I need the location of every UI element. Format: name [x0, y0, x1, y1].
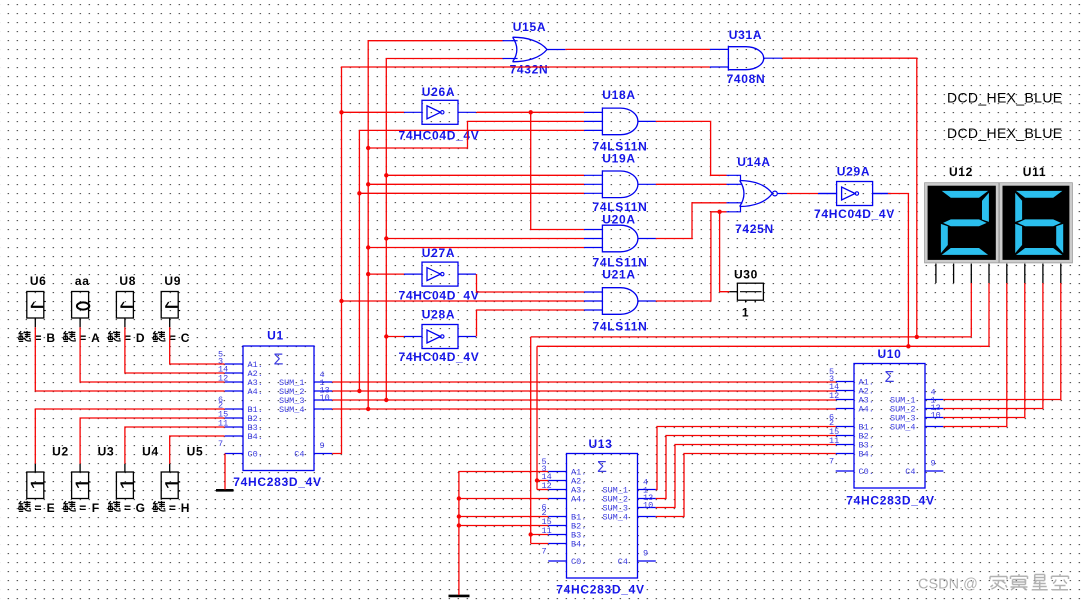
- svg-text:B: B: [46, 331, 55, 345]
- svg-text:U2: U2: [52, 444, 69, 458]
- svg-text:U3: U3: [98, 444, 115, 458]
- svg-text:9: 9: [643, 549, 648, 559]
- svg-text:A: A: [91, 331, 100, 345]
- svg-text:DCD_HEX_BLUE: DCD_HEX_BLUE: [947, 89, 1062, 105]
- svg-text:C4: C4: [294, 450, 304, 460]
- svg-text:A4.: A4.: [571, 495, 586, 505]
- svg-text:74HC283D_4V: 74HC283D_4V: [556, 583, 644, 597]
- svg-text:U12: U12: [949, 165, 973, 179]
- svg-text:U18A: U18A: [602, 88, 635, 102]
- svg-text:7: 7: [829, 457, 834, 467]
- svg-text:D: D: [136, 331, 145, 345]
- svg-text:E: E: [47, 501, 56, 515]
- svg-text:10: 10: [320, 393, 330, 403]
- svg-text:U14A: U14A: [737, 155, 770, 169]
- svg-text:C4: C4: [905, 467, 915, 477]
- svg-text:SUM_4: SUM_4: [602, 513, 628, 523]
- svg-text:B4.: B4.: [571, 540, 586, 550]
- svg-text:A4.: A4.: [248, 387, 263, 397]
- svg-text:C0.: C0.: [859, 467, 874, 477]
- svg-text:7432N: 7432N: [510, 63, 549, 77]
- svg-text:C4: C4: [618, 557, 628, 567]
- svg-text:A4.: A4.: [859, 405, 874, 415]
- svg-text:SUM_4: SUM_4: [890, 423, 916, 433]
- svg-text:=: =: [34, 501, 42, 515]
- svg-text:=: =: [169, 501, 177, 515]
- svg-text:U4: U4: [142, 444, 159, 458]
- svg-text:1: 1: [742, 306, 749, 320]
- svg-text:U19A: U19A: [602, 151, 635, 165]
- svg-text:U11: U11: [1023, 165, 1046, 179]
- svg-text:B4.: B4.: [859, 450, 874, 460]
- svg-text:7425N: 7425N: [735, 222, 774, 236]
- svg-text:9: 9: [931, 459, 936, 469]
- svg-text:SUM_4: SUM_4: [279, 405, 305, 415]
- svg-text:U30: U30: [734, 267, 758, 281]
- svg-text:74HC04D_4V: 74HC04D_4V: [814, 207, 895, 221]
- svg-text:B4.: B4.: [248, 432, 263, 442]
- svg-text:F: F: [92, 501, 100, 515]
- svg-text:=: =: [79, 501, 87, 515]
- svg-text:7: 7: [542, 547, 547, 557]
- svg-text:CSDN:@: CSDN:@: [918, 577, 978, 593]
- svg-text:H: H: [181, 501, 190, 515]
- svg-text:=: =: [124, 501, 132, 515]
- svg-text:U15A: U15A: [513, 20, 546, 34]
- svg-text:U1: U1: [267, 329, 284, 343]
- svg-text:C: C: [181, 331, 190, 345]
- svg-text:U5: U5: [187, 444, 204, 458]
- svg-text:U31A: U31A: [729, 28, 762, 42]
- svg-text:9: 9: [320, 441, 325, 451]
- svg-text:74HC04D_4V: 74HC04D_4V: [398, 350, 479, 364]
- svg-text:74HC283D_4V: 74HC283D_4V: [846, 494, 934, 508]
- svg-text:74LS11N: 74LS11N: [593, 320, 648, 334]
- svg-text:U10: U10: [877, 347, 901, 361]
- svg-text:U21A: U21A: [602, 268, 635, 282]
- svg-text:Σ: Σ: [274, 352, 284, 369]
- svg-text:aa: aa: [75, 274, 90, 288]
- svg-text:U6: U6: [30, 274, 47, 288]
- svg-text:74HC283D_4V: 74HC283D_4V: [233, 475, 321, 489]
- svg-text:10: 10: [931, 411, 941, 421]
- svg-text:C0.: C0.: [571, 557, 586, 567]
- svg-text:U29A: U29A: [837, 165, 870, 179]
- svg-text:10: 10: [643, 501, 653, 511]
- svg-text:G: G: [136, 501, 146, 515]
- svg-text:7408N: 7408N: [727, 72, 766, 86]
- svg-text:U26A: U26A: [422, 85, 455, 99]
- svg-text:U28A: U28A: [422, 308, 455, 322]
- svg-text:U13: U13: [588, 437, 612, 451]
- svg-text:DCD_HEX_BLUE: DCD_HEX_BLUE: [947, 125, 1062, 141]
- svg-text:U8: U8: [119, 274, 136, 288]
- svg-text:U9: U9: [164, 274, 181, 288]
- svg-text:7: 7: [218, 439, 223, 449]
- svg-text:Σ: Σ: [885, 369, 895, 386]
- svg-text:U20A: U20A: [602, 213, 635, 227]
- svg-text:C0.: C0.: [248, 450, 263, 460]
- svg-text:Σ: Σ: [597, 459, 607, 476]
